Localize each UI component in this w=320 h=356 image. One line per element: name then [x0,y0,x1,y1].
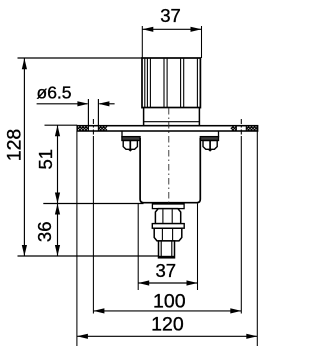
dimension 37 top ext right [201,26,203,58]
neck collar [152,204,184,209]
right screw bracket edge [218,131,220,137]
dimension o6.5 leader left [37,103,88,105]
dimension 37 bottom arrow right [187,280,198,285]
dimension 51 arrow down [55,193,60,204]
left screw bracket edge [121,131,123,137]
dimension 100 line [93,310,241,312]
dimension o6.5 leader right [99,103,114,105]
svg-text:36: 36 [34,222,55,243]
extension line at neck (51/36 junction) [43,203,143,205]
svg-text:120: 120 [151,314,184,336]
extension line at flange top (51) [45,124,78,126]
dimension 36 arrow up [55,204,60,215]
left screw head dome [123,141,137,150]
hole center line left [92,119,94,136]
dimension 120 line [77,335,257,337]
dimension 37 top arrow left [142,27,153,32]
flange hatch right outer [246,126,257,131]
washer disk [152,224,184,229]
flange edge extension line left [76,131,78,346]
knob knurl rib lines [145,59,198,108]
dimension 128 line [23,58,25,256]
hex nut lower [154,228,182,241]
main body [140,138,200,203]
right screw slot [209,141,211,150]
flange edge extension line right [256,131,258,346]
vertical center line [168,108,170,204]
right screw tip notch [207,149,212,151]
hole right edge lines [235,126,237,131]
hole left edge lines [87,99,89,131]
threaded stud [159,241,175,258]
dimension o6.5 arrow right [98,101,109,106]
flange hatch left inner [99,126,107,131]
base step line [144,121,200,123]
dimension 51 line [57,125,59,203]
dimension 37 top line [142,28,201,30]
dimension 100 arrow right [230,308,241,313]
body edge extension line left (37 bottom) [137,204,139,291]
dimension 120 arrow left [77,334,88,339]
stud end face [159,256,175,258]
dimension 36 line [57,204,59,257]
left screw tip notch [128,149,133,151]
right screw head bar [200,137,218,141]
left screw head bar [122,137,140,141]
hole center line right [240,119,242,136]
flange hatch right inner [231,126,236,131]
dimension 37 top ext left [141,26,143,58]
dimension 37 bottom arrow left [138,280,149,285]
dimension 37 bottom line [138,282,197,284]
stud thread relief lines [160,242,162,258]
flange hatch left outer [78,126,88,131]
dimension o6.5 arrow left [77,101,88,106]
dimension 100 arrow left [93,308,104,313]
svg-text:ø6.5: ø6.5 [37,82,72,102]
dimension 128 arrow up [22,58,27,69]
dimension 37 top arrow right [191,27,202,32]
bottom extension line at stud end [18,255,159,257]
body edge extension line right (37 bottom) [197,204,199,291]
dimension 120 arrow right [246,334,257,339]
svg-text:100: 100 [153,291,186,313]
top extension line at knob top [18,57,143,59]
svg-text:37: 37 [160,5,181,26]
dimension 36 arrow down [55,245,60,256]
flange plate (sectioned) [77,126,257,131]
hex upper facet lines [162,209,164,223]
right screw head dome [203,141,217,150]
svg-text:51: 51 [35,149,56,170]
svg-text:128: 128 [3,129,25,162]
hex nut upper [155,209,180,224]
left screw slot [129,141,131,150]
svg-text:37: 37 [156,260,177,281]
knob base block [144,108,200,126]
dimension 51 arrow up [55,125,60,136]
knob (knurled cap) outline [142,58,200,108]
hex lower facet lines [161,229,163,240]
dimension 128 arrow down [22,245,27,256]
